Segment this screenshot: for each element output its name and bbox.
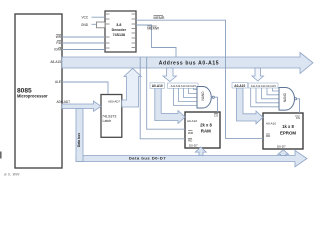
memory U5 EPROM name label bbox=[280, 124, 296, 135]
gate NAND1 (RAM chip select) bbox=[197, 87, 214, 109]
svg-text:WR: WR bbox=[188, 131, 194, 135]
svg-text:2k x 8: 2k x 8 bbox=[200, 122, 212, 127]
label box A11-A15 (RAM group) bbox=[168, 83, 199, 88]
latch U3 74LS373 box bbox=[101, 95, 122, 138]
svg-text:ALE: ALE bbox=[55, 80, 61, 84]
microprocessor U1 pin labels bbox=[50, 35, 70, 104]
svg-text:A0-A10: A0-A10 bbox=[234, 84, 245, 88]
bus: riser arrow data bus to EPROM D0-D7 bbox=[278, 150, 289, 156]
svg-text:WR: WR bbox=[56, 35, 62, 39]
svg-text:Decoder: Decoder bbox=[112, 28, 127, 32]
wire WR 8085 to decoder bbox=[62, 36, 105, 38]
wire ALE 8085 to latch bbox=[62, 82, 108, 94]
svg-text:A8-A15: A8-A15 bbox=[50, 60, 61, 64]
label box A0-A10 (RAM group) bbox=[150, 83, 165, 89]
svg-text:1k x 8: 1k x 8 bbox=[282, 124, 294, 129]
svg-text:CS: CS bbox=[214, 114, 218, 118]
svg-text:A11 A12 A13 A14 A15: A11 A12 A13 A14 A15 bbox=[251, 84, 277, 88]
svg-text:Microprocessor: Microprocessor bbox=[17, 94, 48, 99]
overline bars on active-low pin labels bbox=[56, 16, 300, 139]
wire MEMR from decoder to EPROM RD bbox=[136, 20, 263, 138]
memory U4 RAM name label bbox=[200, 122, 212, 133]
svg-text:MEMW: MEMW bbox=[147, 26, 159, 30]
svg-text:A0-A10: A0-A10 bbox=[152, 84, 163, 88]
wire IO/M 8085 to decoder bbox=[62, 49, 105, 51]
wires A11-A15 into RAM NAND bbox=[174, 88, 198, 106]
bus: address bus A0-A15 arrow bbox=[62, 53, 313, 74]
decoder U2 left pin ticks bbox=[106, 14, 110, 48]
svg-text:D0-D7: D0-D7 bbox=[277, 144, 286, 148]
wire RD 8085 to decoder bbox=[62, 42, 105, 44]
wire GND to decoder bbox=[92, 23, 98, 25]
label box A11-A15 (EPROM group) bbox=[249, 83, 279, 88]
svg-text:Data bus: Data bus bbox=[77, 133, 81, 147]
svg-text:Address bus A0-A15: Address bus A0-A15 bbox=[159, 60, 219, 66]
svg-text:A11 A12 A13 A14 A15: A11 A12 A13 A14 A15 bbox=[171, 84, 197, 88]
bus: A0-A10 branch into RAM bbox=[155, 88, 185, 124]
svg-text:AD0-AD7: AD0-AD7 bbox=[57, 100, 71, 104]
bus: data bus horizontal arrow bbox=[76, 151, 307, 167]
microprocessor U1 name label bbox=[17, 87, 48, 98]
decoder U2 name label bbox=[112, 23, 127, 37]
svg-text:74LS373: 74LS373 bbox=[102, 115, 116, 119]
bus: data bus corner junction fill bbox=[76, 152, 82, 162]
wire MEMW drop to RAM WR bbox=[147, 57, 185, 129]
bus: A0-A10 branch into EPROM bbox=[237, 88, 264, 124]
svg-text:IO/M: IO/M bbox=[54, 48, 61, 52]
wire NAND1 output to RAM CS bbox=[214, 97, 217, 112]
decoder U2 74S138 box bbox=[105, 11, 136, 52]
svg-text:Data bus D0-D7: Data bus D0-D7 bbox=[129, 156, 166, 161]
memory U5 EPROM box bbox=[263, 113, 303, 149]
svg-text:74S138: 74S138 bbox=[113, 33, 125, 37]
svg-text:MEMR: MEMR bbox=[154, 16, 165, 20]
bus: drop arrow from address bus (RAM group) bbox=[163, 68, 177, 82]
svg-text:3-8: 3-8 bbox=[116, 23, 121, 27]
latch U3 name label bbox=[102, 115, 116, 123]
svg-text:D0-D7: D0-D7 bbox=[189, 143, 198, 147]
svg-text:VCC: VCC bbox=[82, 16, 89, 20]
svg-text:NAND: NAND bbox=[201, 91, 205, 101]
microprocessor U1 8085 box bbox=[15, 14, 62, 168]
memory U5 EPROM pin labels bbox=[266, 116, 300, 148]
decoder U2 right pin ticks bbox=[132, 14, 136, 48]
svg-text:RAM: RAM bbox=[201, 128, 211, 133]
bus: AD0-AD7 arrow 8085 to latch bbox=[62, 101, 101, 111]
svg-text:AD0-AD7: AD0-AD7 bbox=[108, 100, 120, 104]
svg-text:A0-A10: A0-A10 bbox=[266, 122, 276, 126]
svg-text:A0-A10: A0-A10 bbox=[187, 119, 197, 123]
wires A11-A15 into EPROM NAND bbox=[251, 88, 279, 107]
svg-text:CS: CS bbox=[296, 116, 300, 120]
svg-text:a s. ww: a s. ww bbox=[4, 172, 20, 177]
label box A0-A10 (EPROM group) bbox=[232, 83, 248, 89]
bus: latch output A0-A7 riser into address bus bbox=[122, 68, 141, 107]
GND tie box on decoder enables bbox=[97, 22, 106, 28]
svg-text:EPROM: EPROM bbox=[280, 130, 296, 135]
svg-text:NAND: NAND bbox=[283, 92, 287, 102]
svg-text:Latch: Latch bbox=[103, 119, 112, 123]
memory U4 RAM pin labels bbox=[187, 114, 218, 148]
wire NAND2 output to EPROM CS bbox=[297, 99, 300, 113]
memory U4 RAM box bbox=[185, 112, 220, 148]
bus: drop arrow from address bus (EPROM group) bbox=[252, 68, 264, 81]
wire MEMW from decoder bbox=[136, 25, 176, 57]
wire MEMR drop to RAM RD bbox=[140, 57, 185, 139]
wire VCC to decoder bbox=[92, 16, 106, 18]
svg-text:RD: RD bbox=[56, 41, 61, 45]
bus: data bus vertical segment from 8085 bbox=[76, 109, 83, 162]
left edge tick mark bbox=[0, 152, 2, 159]
svg-text:GND: GND bbox=[81, 23, 89, 27]
bus: riser arrow data bus to RAM D0-D7 bbox=[195, 147, 206, 156]
gate NAND2 (EPROM chip select) bbox=[279, 88, 297, 111]
